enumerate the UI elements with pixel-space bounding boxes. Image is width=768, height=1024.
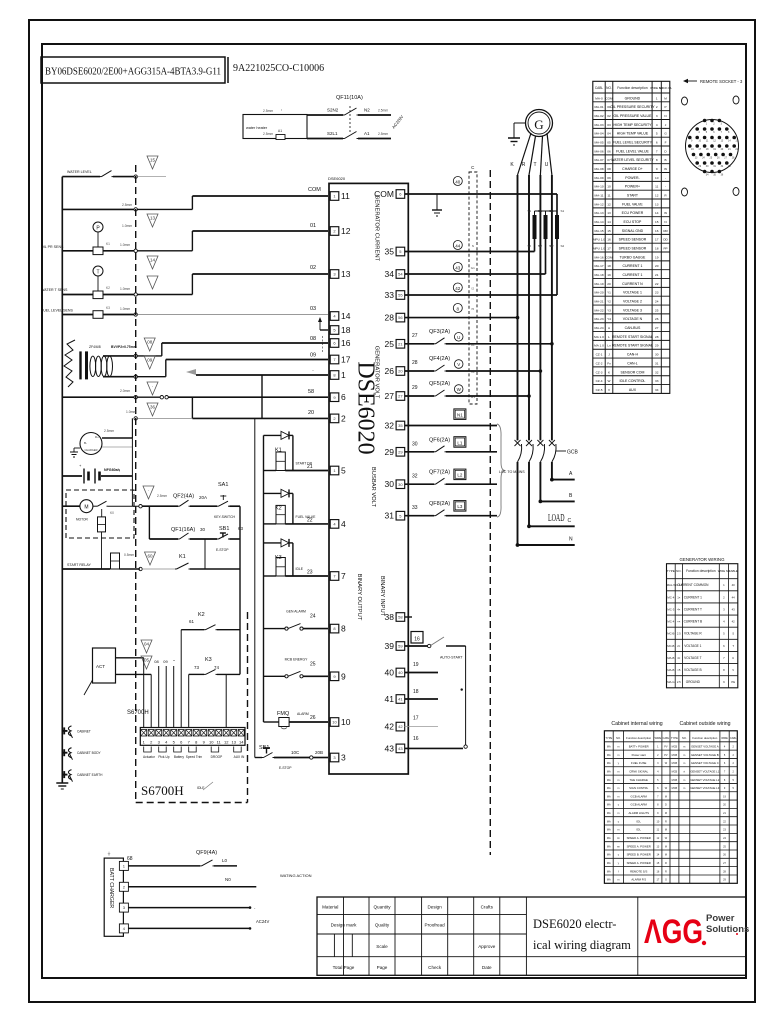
svg-text:QF2(4A): QF2(4A) (173, 494, 194, 500)
svg-text:VOLTAGE 1: VOLTAGE 1 (623, 291, 642, 295)
svg-text:1×: 1× (677, 595, 681, 599)
svg-text:27: 27 (398, 394, 403, 399)
terminal pin 28 (396, 313, 405, 322)
svg-text:B: B (665, 158, 667, 162)
svg-text:²: ² (281, 108, 282, 112)
svg-text:CURRENT 1: CURRENT 1 (622, 273, 642, 277)
svg-text:0.5mm: 0.5mm (124, 553, 134, 557)
svg-text:30: 30 (412, 441, 418, 447)
svg-text:08: 08 (147, 340, 153, 345)
svg-text:01: 01 (310, 223, 316, 229)
governor wire t6 (180, 630, 182, 728)
svg-text:10: 10 (655, 176, 659, 180)
terminal pin 8 (330, 624, 339, 633)
svg-text:GCB ALARM: GCB ALARM (631, 794, 648, 798)
terminal pin 32 (396, 421, 405, 430)
svg-text:9A221025CO-C10006: 9A221025CO-C10006 (233, 63, 324, 74)
svg-text:T: T (533, 162, 536, 168)
svg-text:DSE6020 electr-: DSE6020 electr- (533, 917, 616, 931)
svg-text:VOLTAGE N: VOLTAGE N (623, 317, 643, 321)
svg-text:Design: Design (427, 905, 442, 910)
input wire 17 pin 42 (405, 726, 439, 728)
circled wire number 40 (453, 177, 462, 186)
svg-text:N: N (569, 537, 573, 543)
svg-text:42: 42 (385, 722, 395, 732)
svg-text:WATER T SENS: WATER T SENS (41, 288, 68, 292)
svg-text:05: 05 (144, 658, 150, 663)
svg-text:CURRENT B: CURRENT B (684, 620, 703, 624)
terminal pin COM (396, 190, 405, 199)
svg-text:ZF4/6/8: ZF4/6/8 (89, 345, 101, 349)
svg-text:GENSET VOLTAGE A: GENSET VOLTAGE A (691, 744, 719, 748)
wire 58 to pin 6 (62, 396, 134, 398)
svg-text:S2L1: S2L1 (327, 131, 338, 136)
svg-text:S2: S2 (561, 244, 565, 248)
battery charger unit box (104, 858, 123, 936)
svg-text:CABL: CABL (663, 737, 670, 740)
relay contact K2 row (181, 629, 204, 631)
svg-text:VOLTAGE T: VOLTAGE T (684, 656, 701, 660)
svg-text:OIL PR SENS: OIL PR SENS (41, 245, 64, 249)
phase vertical U (551, 175, 553, 440)
svg-text:CABL: CABL (595, 86, 604, 90)
svg-text:NO.: NO. (616, 736, 621, 740)
svg-text:1.0mm: 1.0mm (122, 224, 132, 228)
governor wire t12 (225, 674, 227, 727)
svg-text:29: 29 (398, 449, 403, 454)
svg-text:AUX: AUX (629, 388, 637, 392)
connector screw holes (682, 97, 688, 105)
svg-text:m: m (617, 754, 619, 757)
svg-text:GEN ALARM: GEN ALARM (286, 610, 306, 614)
svg-text:SPEED A. POWER: SPEED A. POWER (627, 836, 651, 840)
svg-text:T: T (96, 269, 99, 275)
svg-text:23: 23 (307, 570, 313, 576)
svg-text:MOTOR: MOTOR (76, 518, 89, 522)
svg-text:09: 09 (607, 176, 611, 180)
svg-text:CURRENT COMMON: CURRENT COMMON (677, 583, 709, 587)
title bar separator (227, 57, 229, 83)
svg-text:54: 54 (398, 272, 403, 277)
svg-text:5: 5 (341, 466, 346, 476)
load phase C (527, 524, 531, 528)
busbar breaker QF6(2A) L1 (405, 451, 435, 453)
svg-text:MA-22: MA-22 (594, 308, 603, 312)
svg-text:m: m (617, 829, 619, 832)
svg-text:MA-08: MA-08 (594, 167, 603, 171)
governor wire t3 net 08 (158, 666, 160, 728)
svg-text:W: W (457, 387, 462, 392)
svg-text:L2: L2 (457, 473, 463, 478)
svg-text:MA: MA (607, 854, 611, 857)
svg-text:5: 5 (656, 132, 658, 136)
svg-text:60: 60 (147, 554, 153, 559)
svg-text:ALARM LIGHTS: ALARM LIGHTS (628, 811, 649, 815)
svg-text:Page: Page (377, 965, 388, 970)
svg-text:MA: MA (607, 837, 611, 840)
wire N2 to AC220V (358, 114, 391, 116)
terminal pin 40 (396, 668, 405, 677)
svg-text:MA-02: MA-02 (594, 114, 603, 118)
wire flag 36 (147, 403, 158, 416)
svg-text:2.5mm: 2.5mm (378, 132, 388, 136)
svg-text:NO.: NO. (682, 736, 687, 740)
svg-text:THE CHARGE: THE CHARGE (630, 778, 648, 782)
svg-text:GENERATOR WIRING: GENERATOR WIRING (680, 557, 726, 562)
svg-text:TURBO GAUGE: TURBO GAUGE (620, 255, 647, 259)
svg-text:2×: 2× (677, 644, 681, 648)
svg-text:CZ-3: CZ-3 (596, 370, 603, 374)
svg-text:K1: K1 (275, 447, 282, 453)
svg-text:rm: rm (617, 837, 620, 840)
charger terminal 1 (119, 861, 128, 870)
svg-text:MCB: MCB (672, 770, 678, 773)
charger terminal 3 (119, 903, 128, 912)
svg-text:12: 12 (224, 740, 229, 745)
controller DSE6020 body (329, 183, 408, 774)
svg-text:13: 13 (150, 216, 156, 221)
cable marker C dashed box (469, 172, 477, 404)
svg-text:VOLTAGE 3: VOLTAGE 3 (623, 308, 642, 312)
svg-text:BINARY OUTPUT: BINARY OUTPUT (356, 574, 362, 621)
svg-text:KEY-SWITCH: KEY-SWITCH (214, 515, 236, 519)
svg-text:10: 10 (341, 717, 351, 727)
pin function table (593, 81, 670, 393)
charger D+ wire (102, 437, 132, 439)
svg-text:6: 6 (341, 392, 346, 402)
svg-text:GCB: GCB (567, 450, 579, 456)
svg-text:9: 9 (656, 167, 658, 171)
svg-text:CZ-2: CZ-2 (596, 361, 603, 365)
svg-text:19: 19 (607, 273, 611, 277)
svg-text:44: 44 (455, 243, 461, 248)
svg-text:34: 34 (385, 269, 395, 279)
terminal pin 16 (330, 339, 339, 348)
svg-text:26: 26 (385, 366, 395, 376)
svg-text:DD: DD (663, 238, 668, 242)
svg-text:SB1: SB1 (219, 526, 229, 532)
svg-text:MA-18: MA-18 (594, 273, 603, 277)
terminal pin 42 (396, 722, 405, 731)
svg-text:56: 56 (398, 315, 403, 320)
svg-text:MA-24: MA-24 (594, 326, 603, 330)
svg-text:1: 1 (656, 96, 658, 100)
svg-text:MA-05: MA-05 (594, 141, 603, 145)
svg-text:FUEL VALVE: FUEL VALVE (622, 202, 643, 206)
terminal pin 33 (396, 291, 405, 300)
svg-text:MA: MA (607, 870, 611, 873)
svg-text:POWER+: POWER+ (625, 185, 640, 189)
svg-text:CAN-BUS: CAN-BUS (625, 326, 641, 330)
S6700H dashed enclosure (247, 612, 249, 803)
svg-text:MCB: MCB (672, 787, 678, 790)
svg-text:E-STOP: E-STOP (216, 548, 229, 552)
svg-text:NFG80ah: NFG80ah (104, 468, 120, 472)
svg-text:Function description: Function description (617, 86, 647, 90)
svg-text:Crafts: Crafts (481, 905, 494, 910)
svg-text:25: 25 (655, 308, 659, 312)
svg-text:MA-09: MA-09 (594, 176, 603, 180)
bonding point cabinet body (62, 752, 67, 754)
svg-text:M: M (665, 795, 667, 798)
svg-text:17: 17 (655, 238, 659, 242)
svg-text:LOAD: LOAD (548, 513, 565, 524)
relay contact K3 row (189, 673, 204, 675)
svg-text:1.0mm: 1.0mm (120, 243, 130, 247)
svg-text:M: M (665, 829, 667, 832)
svg-text:6: 6 (656, 141, 658, 145)
governor wire t5 battery minus (173, 666, 175, 728)
svg-text:POWER-: POWER- (625, 176, 640, 180)
svg-text:K1: K1 (179, 554, 186, 560)
svg-text:7: 7 (341, 571, 346, 581)
svg-text:12: 12 (655, 194, 659, 198)
svg-text:18: 18 (413, 689, 419, 695)
terminal pin 6 (330, 393, 339, 402)
svg-text:WATING ACTION: WATING ACTION (280, 873, 312, 878)
svg-text:Actuator: Actuator (143, 755, 156, 759)
water heater box (243, 115, 307, 139)
svg-text:GENSET VOLTAGE L2: GENSET VOLTAGE L2 (690, 778, 719, 782)
svg-text:22: 22 (307, 517, 313, 523)
svg-text:68: 68 (127, 856, 133, 862)
svg-text:AUTO-START: AUTO-START (440, 656, 463, 660)
load phase B (539, 500, 543, 504)
fuse A1 on heater bottom wire (276, 135, 285, 140)
svg-text:A1: A1 (364, 131, 370, 136)
svg-text:2.5mm: 2.5mm (378, 109, 388, 113)
svg-text:18: 18 (655, 247, 659, 251)
governor terminal group brackets (144, 747, 152, 753)
svg-text:Design mark: Design mark (331, 923, 357, 928)
svg-text:COM: COM (605, 96, 613, 100)
svg-text:MA: MA (607, 812, 611, 815)
svg-text:RR: RR (663, 229, 668, 233)
svg-text:TYPE: TYPE (605, 736, 612, 740)
svg-text:MA: MA (607, 754, 611, 757)
svg-text:GENSET VOLTAGE L1: GENSET VOLTAGE L1 (690, 769, 719, 773)
svg-text:12: 12 (607, 202, 611, 206)
svg-text:MCB: MCB (672, 745, 678, 748)
voltage sense QF4(2A) phase V (405, 370, 435, 372)
load neutral N (516, 543, 520, 547)
terminal pin 17 (330, 355, 339, 364)
svg-text:SOCK PL: SOCK PL (659, 86, 672, 90)
svg-text:SPEED A. POWER: SPEED A. POWER (627, 844, 651, 848)
svg-text:ACT: ACT (96, 664, 105, 669)
svg-text:24: 24 (310, 614, 316, 620)
svg-text:START RELAY: START RELAY (67, 563, 92, 567)
actuator ACT (93, 648, 116, 683)
circled wire number 8 (453, 304, 462, 313)
wire flag 60 (145, 552, 156, 565)
starter motor dashed box (66, 490, 134, 538)
svg-text:11: 11 (655, 185, 658, 189)
svg-text:IDL: IDL (637, 828, 642, 832)
svg-text:×5: ×5 (677, 668, 681, 672)
svg-text:SPEED A. POWER: SPEED A. POWER (627, 861, 651, 865)
svg-text:BY06DSE6020/2E00+AGG315A-4BTA3: BY06DSE6020/2E00+AGG315A-4BTA3.9-G11 (45, 67, 221, 78)
svg-text:MA-23: MA-23 (594, 317, 603, 321)
svg-text:GENERATOR CURRENT: GENERATOR CURRENT (374, 195, 380, 262)
svg-text:06: 06 (607, 149, 611, 153)
terminal pin 29 (396, 448, 405, 457)
terminal pin 39 (396, 642, 405, 651)
svg-text:QF7(2A): QF7(2A) (429, 470, 450, 476)
svg-text:BINARY INPUT: BINARY INPUT (379, 576, 385, 617)
svg-text:MCB ENERGY: MCB ENERGY (285, 657, 309, 661)
svg-text:FUEL LEVEL SECURITY: FUEL LEVEL SECURITY (613, 141, 653, 145)
svg-text:IDLE: IDLE (296, 567, 304, 571)
svg-text:2: 2 (341, 413, 346, 423)
connector pins (688, 119, 739, 177)
svg-text:·: · (312, 368, 314, 374)
svg-text:GROUND: GROUND (625, 96, 641, 100)
svg-text:CURRENT 1: CURRENT 1 (622, 264, 642, 268)
svg-text:I2: I2 (472, 287, 475, 291)
svg-text:55: 55 (398, 293, 403, 298)
auto-start return vertical (465, 646, 467, 745)
svg-text:33: 33 (385, 290, 395, 300)
svg-text:⏚: ⏚ (107, 850, 111, 856)
svg-text:ALARM F/S: ALARM F/S (631, 878, 646, 882)
svg-text:TYPE: TYPE (671, 736, 678, 740)
svg-text:29: 29 (385, 447, 395, 457)
svg-text:33: 33 (412, 505, 418, 511)
svg-text:M: M (665, 845, 667, 848)
svg-text:QF4(2A): QF4(2A) (429, 356, 450, 362)
svg-text:20: 20 (308, 410, 314, 416)
svg-text:CABLE: CABLE (729, 569, 738, 573)
wire ACT 04 (116, 657, 144, 659)
COM wire ground (436, 194, 438, 210)
governor wire t4 net 09 (165, 666, 167, 728)
svg-text:MA-17: MA-17 (594, 264, 603, 268)
svg-text:17: 17 (607, 247, 611, 251)
svg-text:S2N2: S2N2 (327, 108, 339, 113)
svg-text:MA-01: MA-01 (594, 105, 603, 109)
CT common wire to COM pin (405, 193, 558, 195)
CT secondary wire 42 to pin 33 (405, 294, 558, 296)
svg-text:43: 43 (385, 743, 395, 753)
wire flag 04 (141, 640, 152, 653)
svg-text:K3: K3 (275, 555, 282, 561)
svg-text:14: 14 (655, 211, 659, 215)
svg-text:13: 13 (655, 202, 659, 206)
svg-text:MA: MA (607, 862, 611, 865)
svg-text:N: N (664, 220, 666, 224)
svg-text:1.0mm: 1.0mm (120, 307, 130, 311)
svg-text:MC-3: MC-3 (667, 607, 674, 611)
svg-text:U: U (732, 656, 734, 660)
terminal pin 12 (330, 227, 339, 236)
svg-text:MA-04: MA-04 (594, 132, 603, 136)
svg-text:09: 09 (310, 353, 316, 359)
svg-text:Date: Date (482, 965, 492, 970)
svg-text:GCB ALARM: GCB ALARM (631, 803, 648, 807)
starter solenoid (93, 505, 96, 507)
svg-text:MA: MA (607, 745, 611, 748)
voltage sense QF5(2A) phase W (405, 395, 435, 397)
svg-text:MAL-5: MAL-5 (667, 583, 676, 587)
svg-text:Quality: Quality (375, 923, 390, 928)
svg-text:58: 58 (398, 615, 403, 620)
svg-text:CZ-5: CZ-5 (596, 388, 603, 392)
svg-text:CURRENT T: CURRENT T (684, 607, 702, 611)
svg-text:SPEED SENSOR: SPEED SENSOR (619, 247, 647, 251)
svg-text:MPU 1.0: MPU 1.0 (593, 247, 605, 251)
svg-text:33: 33 (655, 379, 659, 383)
svg-text:-: - (665, 185, 666, 189)
svg-text:S1: S1 (561, 209, 565, 213)
governor wire t7 (188, 674, 190, 727)
svg-text:4: 4 (341, 519, 346, 529)
svg-text:T: T (732, 644, 734, 648)
svg-text:40: 40 (455, 179, 461, 184)
wire 03 to pin 14 (137, 314, 328, 316)
svg-text:START: START (627, 194, 639, 198)
svg-text:FMQ: FMQ (277, 711, 290, 717)
svg-text:SIGNAL GND: SIGNAL GND (622, 229, 644, 233)
svg-text:K3: K3 (106, 306, 110, 310)
svg-text:W: W (608, 379, 611, 383)
svg-text:S2: S2 (538, 244, 542, 248)
svg-text:QF1(16A): QF1(16A) (171, 527, 195, 533)
svg-text:4: 4 (656, 123, 658, 127)
svg-text:Y3: Y3 (607, 308, 611, 312)
svg-text:25: 25 (385, 339, 395, 349)
generator ground (514, 122, 526, 124)
svg-text:2: 2 (656, 105, 658, 109)
start enable vertical bus (239, 506, 241, 674)
svg-text:m: m (617, 745, 619, 748)
svg-text:SPEED SENSOR: SPEED SENSOR (619, 238, 647, 242)
svg-text:MA 1.0: MA 1.0 (594, 344, 604, 348)
current transformer CT1 (533, 215, 537, 239)
svg-text:1.0mm: 1.0mm (126, 410, 136, 414)
svg-text:3: 3 (656, 114, 658, 118)
terminal pin 30 (396, 480, 405, 489)
svg-text:R: R (522, 162, 526, 168)
svg-text:CABINET: CABINET (77, 729, 91, 733)
svg-text:29: 29 (412, 385, 418, 391)
svg-text:02: 02 (310, 265, 316, 271)
terminal pin 1 (330, 371, 339, 380)
wire flag 13 (147, 214, 158, 227)
svg-text:43: 43 (455, 265, 461, 270)
svg-text:R: R (665, 820, 667, 823)
svg-text:28: 28 (655, 335, 659, 339)
svg-text:U: U (457, 335, 460, 340)
wire flag 09 (144, 356, 155, 369)
svg-text:12: 12 (341, 226, 351, 236)
wire flag 16 (147, 276, 158, 289)
svg-text:K0: K0 (110, 511, 114, 515)
svg-text:41: 41 (398, 697, 403, 702)
svg-text:24: 24 (655, 300, 659, 304)
wire S2L1 heater bottom (307, 138, 343, 140)
terminal pin 35 (396, 247, 405, 256)
wire 20 to pin 2 (134, 417, 137, 420)
svg-text:43: 43 (398, 746, 403, 751)
charger wire N0 (128, 886, 256, 888)
svg-text:ΛGG: ΛGG (644, 913, 703, 951)
current transformer CT3 (555, 215, 559, 239)
svg-text:36: 36 (150, 405, 156, 410)
svg-text:VOLTAGE 2: VOLTAGE 2 (623, 300, 642, 304)
svg-text:·: · (152, 384, 154, 389)
svg-text:REMOTE S/S: REMOTE S/S (630, 869, 647, 873)
